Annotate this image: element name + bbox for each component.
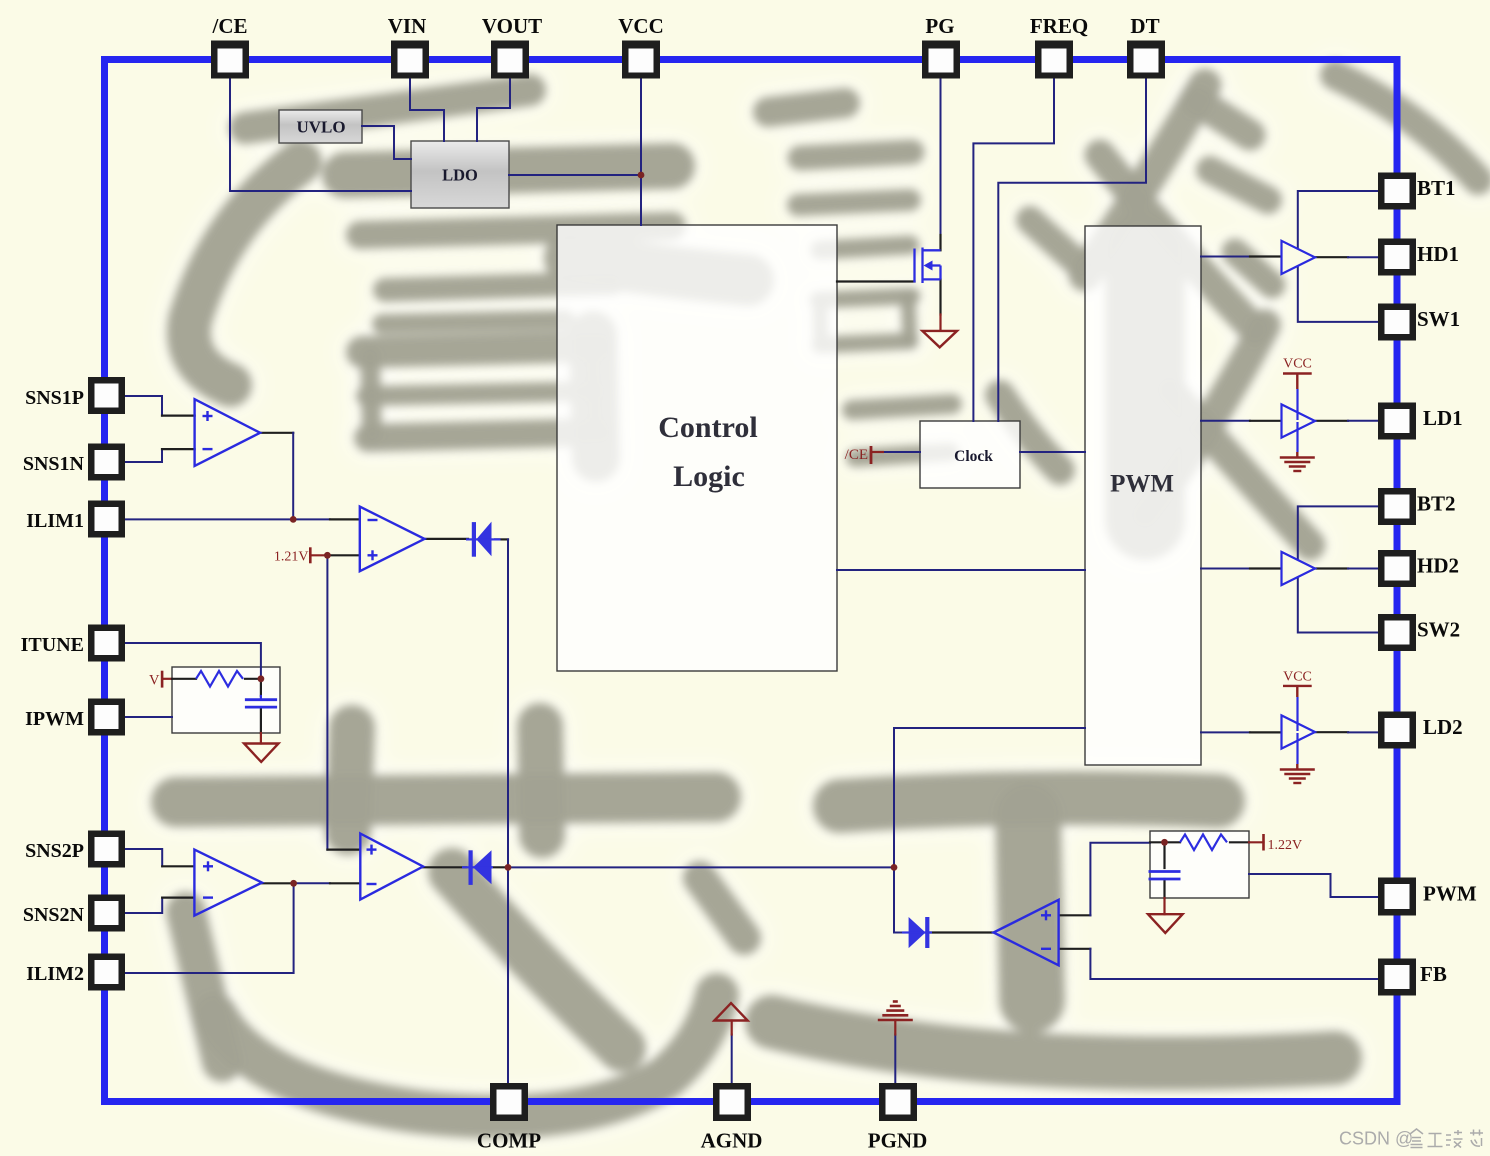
ground (C2) [1148,914,1183,933]
wire comparator C output to comparator D [262,882,294,884]
svg-text:LD2: LD2 [1423,715,1463,739]
wire R2 right to 1.22V [1230,841,1249,843]
op-amp A (SNS1 comparator) [195,399,261,466]
svg-text:PWM: PWM [1110,471,1174,498]
svg-text:VCC: VCC [1283,670,1312,685]
wire BT1 branch [1298,191,1378,255]
wire driver U4 output to HD2 [1315,567,1348,569]
svg-text:ILIM2: ILIM2 [26,963,84,985]
wire VCC pin to Control Logic [640,79,642,226]
pin FREQ [1035,41,1073,79]
wire PWM block to node B [894,728,1085,933]
svg-text:/CE: /CE [845,447,868,463]
wire 1.21V ref to comparator B [310,554,327,556]
ground (Q1 source) [922,331,957,347]
svg-text:BT2: BT2 [1417,492,1456,516]
pin ITUNE [88,625,125,662]
wire SNS2P to comparator C [125,849,162,866]
wire diode D2 to COMP net [492,866,509,868]
node A (VCC-LDO junction) [638,172,645,179]
wire LDO to VCC net [509,174,641,176]
pin ILIM1 [88,501,125,538]
WATERMARK [176,75,1478,1117]
capacitor C2 [1149,872,1181,880]
svg-text:VIN: VIN [388,14,427,38]
LDO block [411,141,509,208]
diode D1 [466,522,501,557]
wire diode D1 to COMP net [495,538,508,540]
wire SNS1P to comparator A [125,396,162,416]
ground U5 [1296,733,1298,764]
terminal 1.21V [309,547,312,563]
svg-text:Logic: Logic [673,460,745,493]
wire UVLO to LDO [362,126,411,159]
pin VOUT [491,41,529,79]
resistor R1 [196,671,243,687]
wire Q1 source to ground [939,279,941,314]
svg-text:FREQ: FREQ [1030,14,1088,38]
wire comparator A output [260,432,293,434]
svg-text:SNS2P: SNS2P [25,840,84,862]
svg-text:SNS1P: SNS1P [25,387,84,409]
svg-text:VOUT: VOUT [482,14,542,38]
pin SNS2P [88,831,125,868]
wire RC box 2 to PWM pin [1249,874,1378,897]
svg-text:LD1: LD1 [1423,406,1463,430]
wire driver U3 output to LD1 [1315,420,1348,422]
wire R1 to node C [245,678,261,680]
svg-text:BT1: BT1 [1417,176,1456,200]
driver U3 (LD1 buffer) [1282,404,1316,437]
svg-text:SNS1N: SNS1N [23,453,85,475]
wire PWM to driver U3 input [1201,420,1250,422]
svg-text:DT: DT [1130,14,1159,38]
node (ILIM2 junction) [290,880,297,887]
diode D3 [902,917,932,948]
pin PGND [879,1083,917,1121]
svg-text:VCC: VCC [1283,357,1312,372]
pin BT2 [1378,488,1416,525]
wire ITUNE to RC box 1 [125,643,261,679]
diode D2 [462,850,493,885]
svg-text:SW1: SW1 [1417,307,1460,331]
pin LD2 [1378,712,1416,749]
pin LD1 [1378,403,1416,440]
svg-text:PWM: PWM [1423,882,1477,906]
svg-text:PGND: PGND [868,1129,928,1153]
BLOCKS [172,110,1249,898]
wire error amp - input to FB [1059,948,1091,950]
pin VCC [622,41,660,79]
wire COMP net to node B [508,866,894,868]
wire comparator B output to diode D1 [425,538,469,540]
pin BT1 [1378,173,1416,210]
ground U3 [1296,422,1298,452]
node E (R2-C2 junction) [1161,839,1168,846]
svg-text:SW2: SW2 [1417,618,1460,642]
pin AGND [713,1083,751,1121]
svg-text:VCC: VCC [618,14,664,38]
wire AGND pin to symbol [731,1035,733,1084]
pin SNS1P [88,377,125,414]
wire SNS2N to comparator C [125,898,162,913]
driver U4 (HD2 buffer) [1282,552,1316,585]
wire PWM to driver U4 input [1201,568,1250,570]
op-amp E (error amp, points left) [994,900,1059,966]
pin SW1 [1378,304,1416,341]
svg-text:Control: Control [658,411,757,444]
pin DT [1127,41,1165,79]
svg-text:AGND: AGND [701,1129,763,1153]
pin IPWM [88,699,125,736]
svg-text:UVLO: UVLO [296,118,345,137]
chip border [105,60,1398,1102]
pin FB [1378,959,1416,996]
pin PG [922,41,960,79]
wire ILIM2 to node D [125,883,294,973]
UVLO block [279,110,362,143]
op-amp B (ILIM1 comparator) [360,507,425,572]
pin PWM [1378,878,1416,916]
wire IPWM to RC box 1 [125,716,172,718]
svg-text:LDO: LDO [442,166,478,185]
RC box 2 (1.22V reference filter) [1150,831,1249,898]
wire 1.21V ref down to comparator D [326,555,328,849]
Clock block [920,421,1020,488]
wire COMP net vertical [507,539,509,1083]
op-amp C (SNS2 comparator) [194,850,262,916]
op-amp D (ILIM2 comparator) [360,834,423,900]
Control Logic block [557,225,837,671]
node C (R1-C1 junction) [258,675,265,682]
svg-text:IPWM: IPWM [25,708,84,730]
wire SW1 branch [1298,259,1378,322]
wire ILIM1 to comparator B [125,518,330,520]
terminal 1.22V [1262,834,1265,851]
terminal V (ITUNE ref) [161,671,164,688]
svg-text:ILIM1: ILIM1 [26,510,84,532]
wire /CE pin to LDO [230,79,411,192]
svg-text:COMP: COMP [477,1129,541,1153]
node (COMP junction) [505,864,512,871]
wire VIN pin to LDO top [410,79,444,142]
svg-text:HD1: HD1 [1417,242,1459,266]
node (1.21V junction) [324,552,331,559]
wire C2 to ground [1163,879,1165,898]
PWM block [1085,226,1201,765]
pin HD1 [1378,239,1416,276]
RC box 1 (ITUNE/IPWM filter) [172,667,280,733]
pin /CE [211,41,249,79]
wire VOUT pin to LDO top [477,79,510,142]
svg-text:V: V [149,673,160,689]
pin VIN [391,41,429,79]
wire /CE to Clock [884,451,920,453]
svg-text:1.21V: 1.21V [274,550,309,565]
capacitor C1 [245,700,277,707]
wire FREQ pin to Clock [973,79,1054,422]
svg-text:HD2: HD2 [1417,554,1459,578]
wire R2 left to node E [1150,841,1180,843]
wire comparator D output to diode D2 [423,866,466,868]
wire C1 to ground [260,707,262,733]
wire Control Logic to PWM [837,569,1085,571]
driver U2 (HD1 buffer) [1282,241,1316,274]
terminal /CE (clock enable) [870,446,873,464]
wire driver U5 output to LD2 [1315,731,1348,733]
wire diode D3 to error amp [929,931,993,933]
pin ILIM2 [88,954,125,991]
wire Control Logic to Q1 gate [837,280,915,282]
wire node C to C1 [260,679,262,696]
analog ground symbol (AGND) [714,1003,747,1020]
pin SNS2N [88,895,125,932]
svg-text:1.22V: 1.22V [1268,838,1303,853]
power ground symbol (PGND) [878,1002,913,1021]
wire SNS1N to comparator A [125,449,162,462]
wire node E to C2 [1163,842,1165,868]
svg-text:PG: PG [925,14,954,38]
wire PG pin to Q1 drain [940,79,942,236]
svg-text:FB: FB [1420,962,1447,986]
pin HD2 [1378,550,1416,587]
driver U5 (LD2 buffer) [1282,715,1316,748]
svg-text:CSDN @: CSDN @ [1339,1129,1413,1149]
pin SW2 [1378,614,1416,651]
pin COMP [490,1083,528,1121]
wire error amp + input to RC box 2 [1059,914,1091,916]
ground (C1) [244,744,279,762]
node B (feedback junction) [891,864,898,871]
svg-text:/CE: /CE [211,14,247,38]
transistor Q1 [915,248,941,284]
VCC symbol U5 [1283,686,1312,697]
svg-text:SNS2N: SNS2N [23,904,85,926]
wire BT2 branch [1298,506,1378,566]
wire V ref to R1 [162,678,172,680]
VCC symbol U3 [1283,374,1312,390]
resistor R2 [1180,835,1227,851]
wire PWM to driver U2 input [1201,256,1250,258]
wire PWM to driver U5 input [1201,731,1250,733]
svg-text:ITUNE: ITUNE [21,634,84,656]
wire SW2 branch [1298,570,1378,633]
wire PGND pin to symbol [894,1035,896,1084]
wire Clock to PWM [1020,451,1085,453]
pin SNS1N [88,444,125,481]
node (ILIM1 junction) [290,516,297,523]
wire driver U2 output to HD1 [1315,256,1348,258]
svg-text:Clock: Clock [954,448,993,465]
wire DT pin to Clock [998,79,1146,422]
CSDN credit [1339,1129,1483,1149]
